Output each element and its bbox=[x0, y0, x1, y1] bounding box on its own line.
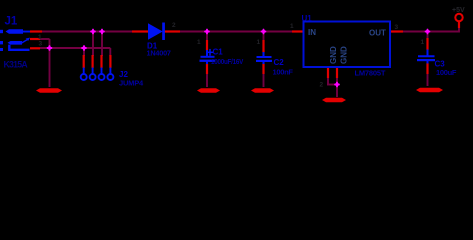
svg-text:3: 3 bbox=[395, 24, 399, 31]
svg-text:2: 2 bbox=[320, 82, 324, 89]
svg-text:IN: IN bbox=[308, 28, 316, 37]
svg-text:C1: C1 bbox=[213, 48, 224, 57]
svg-text:1: 1 bbox=[257, 39, 261, 46]
svg-text:+5V: +5V bbox=[452, 7, 465, 14]
svg-text:1: 1 bbox=[197, 39, 201, 46]
svg-text:1: 1 bbox=[421, 39, 425, 46]
svg-text:3: 3 bbox=[39, 41, 43, 48]
svg-text:1N4007: 1N4007 bbox=[147, 48, 171, 57]
svg-text:100nF: 100nF bbox=[273, 68, 294, 77]
svg-text:1000uF/16V: 1000uF/16V bbox=[211, 59, 244, 67]
svg-text:JUMP4: JUMP4 bbox=[119, 79, 144, 88]
svg-text:GND: GND bbox=[329, 46, 338, 64]
svg-text:K315A: K315A bbox=[3, 59, 28, 69]
svg-text:LM7805T: LM7805T bbox=[355, 69, 386, 78]
svg-text:GND: GND bbox=[339, 46, 348, 64]
svg-text:100uF: 100uF bbox=[436, 68, 457, 77]
svg-text:U1: U1 bbox=[302, 14, 313, 23]
svg-text:C2: C2 bbox=[274, 58, 285, 67]
svg-text:2: 2 bbox=[172, 22, 176, 29]
svg-text:J1: J1 bbox=[5, 16, 18, 28]
svg-text:OUT: OUT bbox=[369, 29, 386, 38]
svg-text:1: 1 bbox=[290, 23, 294, 30]
